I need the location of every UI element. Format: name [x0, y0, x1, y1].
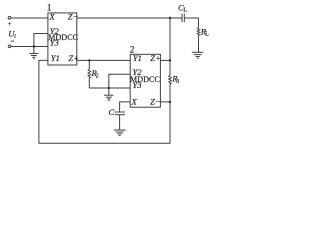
svg-text:Y1: Y1	[133, 53, 142, 63]
junction node (Z- right rail)	[169, 101, 171, 103]
svg-text:X: X	[131, 96, 138, 106]
wire R2 bottom to Y3 of U2	[89, 87, 130, 89]
wire Z+ of U1 to Y1 of U2	[77, 59, 130, 61]
terminal + (input top)	[8, 16, 11, 19]
terminal - (input bottom)	[8, 45, 11, 48]
svg-text:X: X	[48, 11, 55, 21]
svg-text:Y3: Y3	[50, 37, 59, 47]
wire X of U2 to capacitor C	[120, 102, 131, 112]
capacitor CL	[182, 14, 184, 23]
junction node (Z+ right rail)	[169, 59, 171, 61]
ground (RL)	[192, 52, 204, 58]
resistor R2	[88, 60, 91, 88]
resistor R3	[169, 75, 172, 84]
wire right rail Z- junction up to R3	[169, 84, 171, 102]
polarity -	[11, 40, 15, 42]
svg-text:+: +	[8, 20, 12, 28]
capacitor C	[115, 112, 125, 115]
wire C to ground	[119, 115, 121, 130]
wire Y1 of U1 feedback loop to bottom	[39, 60, 170, 143]
wire CL to RL corner	[184, 18, 198, 28]
ground (Y2Y3 net of U2)	[104, 88, 113, 100]
wire Z+ of U2 to right rail	[160, 59, 170, 61]
svg-text:Y1: Y1	[51, 53, 60, 63]
svg-text:Z−: Z−	[68, 11, 79, 21]
svg-text:i: i	[14, 33, 16, 40]
junction node (input ground)	[33, 45, 35, 47]
svg-text:Z+: Z+	[150, 53, 161, 63]
wire input- to Y3 of U1	[11, 46, 48, 48]
wire input+ to X of U1	[11, 17, 48, 19]
svg-text:3: 3	[176, 79, 179, 85]
resistor RL	[197, 28, 200, 36]
svg-text:Y3: Y3	[133, 80, 142, 90]
wire right rail R3 top to Z+ junction to top rail	[169, 18, 171, 75]
junction node (R2 top)	[88, 59, 90, 61]
wire Z- of U2 to right rail	[160, 101, 170, 103]
wire RL to ground	[198, 36, 200, 52]
svg-text:Z+: Z+	[68, 53, 79, 63]
svg-text:L: L	[205, 32, 209, 38]
ground (C)	[114, 130, 126, 136]
svg-text:Z−: Z−	[150, 96, 161, 106]
block U1 (MDDCC 1)	[48, 13, 77, 65]
ground (input)	[29, 47, 38, 59]
block U2 (MDDCC 2)	[130, 54, 160, 107]
wire Z- of U1 to top rail	[77, 17, 182, 19]
junction node (top rail / right rail)	[169, 17, 171, 19]
svg-text:C: C	[109, 107, 115, 117]
wire junction to Y2 of U1	[34, 34, 48, 47]
junction node (U2 Y2/Y3 ground)	[108, 87, 110, 89]
svg-text:L: L	[183, 8, 187, 14]
svg-text:2: 2	[96, 74, 99, 80]
wire junction to Y2 of U2	[109, 74, 130, 88]
